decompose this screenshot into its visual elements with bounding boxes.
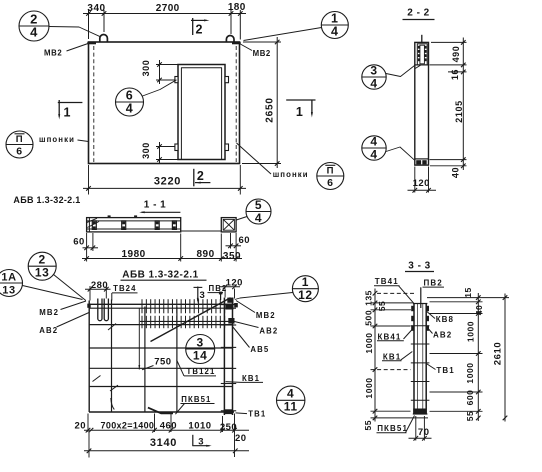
fixator box 1 xyxy=(92,221,96,230)
svg-text:5: 5 xyxy=(255,198,262,212)
mesh vertical bar left edge xyxy=(88,301,90,413)
svg-text:ТВ121: ТВ121 xyxy=(187,367,216,376)
embed MB2 foot detail xyxy=(415,158,429,160)
svg-text:КВ1: КВ1 xyxy=(242,374,260,383)
svg-text:13: 13 xyxy=(35,266,50,280)
svg-text:55: 55 xyxy=(465,411,475,422)
leader shponki right xyxy=(237,143,272,174)
fixator box 3 xyxy=(155,221,159,230)
callout circle II/6 left xyxy=(6,131,33,158)
bar PV2 end in plan xyxy=(220,293,222,300)
svg-text:16: 16 xyxy=(450,69,460,80)
svg-text:КВ41: КВ41 xyxy=(378,332,402,341)
svg-text:4: 4 xyxy=(126,101,134,115)
svg-text:КВ8: КВ8 xyxy=(436,315,454,324)
leader circle 3/4 xyxy=(386,65,415,77)
door opening inner xyxy=(181,68,221,160)
svg-text:1А: 1А xyxy=(1,271,16,283)
main dimension line 1980-890-350 xyxy=(82,258,242,260)
mesh vertical bar 3 xyxy=(144,307,146,413)
mesh horizontal bar 5 xyxy=(89,386,233,388)
svg-text:3 - 3: 3 - 3 xyxy=(408,261,431,272)
svg-text:4: 4 xyxy=(370,147,377,161)
leader circle 2/13 xyxy=(54,275,86,301)
mesh bottom chord xyxy=(89,411,234,413)
door fixing tab upper-left xyxy=(175,77,178,83)
svg-text:1000: 1000 xyxy=(364,377,374,398)
member top edge xyxy=(413,303,428,305)
door gap line xyxy=(181,230,222,232)
small hook curve bottom-left xyxy=(111,398,115,410)
svg-text:ПКВ51: ПКВ51 xyxy=(181,395,211,404)
section mark 2 bottom xyxy=(193,169,195,187)
svg-text:Π: Π xyxy=(327,166,334,177)
plan total dimension 3140 xyxy=(84,450,249,452)
second mesh band ticks xyxy=(141,316,143,328)
bottom hook PKV5 xyxy=(148,408,173,414)
svg-text:6: 6 xyxy=(327,177,333,189)
right dimension line 3-3 xyxy=(477,293,479,421)
left end cap of bar xyxy=(88,218,90,232)
svg-text:Π: Π xyxy=(16,134,23,145)
svg-text:300: 300 xyxy=(141,142,151,159)
section 2-2 panel body xyxy=(415,42,429,165)
top chord end dots xyxy=(87,304,90,308)
svg-text:АВ5: АВ5 xyxy=(250,345,269,354)
callout circle 5/4 xyxy=(246,199,271,224)
right jamb piece xyxy=(221,218,236,232)
svg-text:шпонки: шпонки xyxy=(273,170,309,179)
svg-text:13: 13 xyxy=(2,284,15,296)
bar splice mark 2 xyxy=(110,385,118,391)
shear key bump 1 on bar top xyxy=(108,215,111,217)
leader circle 5/4 xyxy=(236,217,247,221)
section mark 2 top xyxy=(192,18,194,35)
svg-text:1 - 1: 1 - 1 xyxy=(144,200,167,211)
embed plate MB2 top-left corner xyxy=(87,42,96,44)
section mark 3 bottom xyxy=(192,435,194,446)
callout circle II/6 right xyxy=(317,163,344,190)
section 3-3 member left edge xyxy=(413,304,415,415)
column foot black mark xyxy=(224,409,233,414)
hook wire above section xyxy=(421,35,423,43)
svg-text:3: 3 xyxy=(370,63,377,77)
lifting hook left xyxy=(100,35,108,43)
callout circle 1/12 xyxy=(292,276,318,302)
right extension lines 3-3 xyxy=(427,297,509,299)
extension lines plan bottom xyxy=(87,414,89,433)
svg-text:2610: 2610 xyxy=(493,342,504,366)
member foot black mark xyxy=(413,409,426,415)
member crossbars section 3-3 xyxy=(411,325,430,327)
svg-text:МВ2: МВ2 xyxy=(44,49,62,58)
svg-text:4: 4 xyxy=(255,211,262,225)
svg-text:12: 12 xyxy=(298,288,313,302)
top mesh band ticks xyxy=(141,299,143,313)
callout circle 3/14 xyxy=(186,335,215,364)
svg-text:1000: 1000 xyxy=(465,362,475,383)
svg-text:460: 460 xyxy=(160,420,177,431)
door fixing tab lower-right xyxy=(225,144,229,151)
svg-text:60: 60 xyxy=(239,235,251,246)
hook anchor head detail xyxy=(417,44,427,65)
mesh second chord xyxy=(140,320,233,322)
svg-text:3220: 3220 xyxy=(154,176,181,188)
bar splice mark 3 xyxy=(93,376,101,382)
left extension lines 3-3 xyxy=(371,302,413,304)
svg-text:14: 14 xyxy=(193,348,208,362)
dimension 2650 line xyxy=(276,37,278,168)
svg-text:ТВ24: ТВ24 xyxy=(113,284,136,293)
svg-text:2105: 2105 xyxy=(454,100,464,122)
embed AV2 black square xyxy=(228,318,234,324)
leader circle 4/4 xyxy=(386,147,415,160)
head detail bottom line xyxy=(415,64,429,66)
svg-text:4: 4 xyxy=(370,134,377,148)
door opening outer xyxy=(178,65,225,160)
svg-text:ПКВ51: ПКВ51 xyxy=(377,424,408,433)
leader shponki left xyxy=(78,140,89,142)
svg-text:АВ2: АВ2 xyxy=(259,327,278,336)
section 3-3 member right edge xyxy=(425,304,427,415)
svg-text:1000: 1000 xyxy=(364,332,374,353)
edge column bar left xyxy=(223,298,225,415)
mesh vertical bar 4 xyxy=(176,307,178,413)
section mark 1 left xyxy=(58,102,83,104)
svg-text:4: 4 xyxy=(30,24,38,39)
leader circle 1A/13 xyxy=(23,286,83,300)
svg-text:ПВ2: ПВ2 xyxy=(424,279,443,288)
plan bottom dimension row 1 xyxy=(84,429,249,431)
left dimension line 3-3 xyxy=(374,289,376,422)
member inner lines xyxy=(417,304,419,414)
svg-text:1: 1 xyxy=(302,275,309,289)
callout circle 3/4 xyxy=(362,65,386,89)
svg-text:11: 11 xyxy=(284,400,298,414)
svg-text:АБВ 1.3-32-2.1: АБВ 1.3-32-2.1 xyxy=(122,270,198,281)
svg-text:1010: 1010 xyxy=(188,420,211,431)
svg-text:2 - 2: 2 - 2 xyxy=(407,8,430,19)
svg-text:1: 1 xyxy=(331,11,339,25)
dimension 340-2700-180 line xyxy=(83,13,246,15)
section 1-1 bar outline xyxy=(87,218,181,232)
svg-text:АБВ 1.3-32-2.1: АБВ 1.3-32-2.1 xyxy=(13,195,80,205)
bar splice mark 1 xyxy=(108,324,116,331)
column crossbars xyxy=(221,304,236,306)
door fixing tab upper-right xyxy=(225,77,229,83)
svg-text:4: 4 xyxy=(370,76,377,90)
svg-text:ПВ2: ПВ2 xyxy=(209,284,228,293)
svg-text:340: 340 xyxy=(87,3,105,14)
corner embed black square xyxy=(227,298,233,303)
svg-text:3: 3 xyxy=(197,335,204,349)
svg-text:АВ2: АВ2 xyxy=(39,326,58,335)
svg-text:750: 750 xyxy=(154,357,171,368)
panel inner dashed line left xyxy=(93,46,95,162)
svg-text:20: 20 xyxy=(235,433,247,444)
svg-text:2: 2 xyxy=(197,169,205,183)
extension lines for top dimension xyxy=(88,10,90,39)
svg-text:3140: 3140 xyxy=(150,437,177,449)
mesh top chord xyxy=(89,303,236,305)
svg-text:ТВ41: ТВ41 xyxy=(375,277,399,286)
panel inner dashed line right xyxy=(235,46,237,162)
fixator box 2 xyxy=(122,221,126,230)
svg-text:55: 55 xyxy=(377,301,387,312)
callout circle 1A/13 xyxy=(0,270,23,297)
svg-text:40: 40 xyxy=(474,305,484,316)
bar PV2 in section xyxy=(420,287,422,308)
svg-text:МВ2: МВ2 xyxy=(256,311,276,320)
leader from circle 6/4 to door tab xyxy=(143,80,177,96)
callout circle 1/4 xyxy=(321,12,348,39)
door fixing tab lower-left xyxy=(175,144,178,151)
fixator box 4 right end xyxy=(172,221,176,230)
embed plate MB2 top-right corner xyxy=(232,42,241,44)
lifting hook right xyxy=(226,36,234,43)
svg-text:70: 70 xyxy=(418,427,430,438)
svg-text:4: 4 xyxy=(287,387,294,401)
svg-text:135: 135 xyxy=(364,290,374,306)
dimension 70 bottom 3-3 xyxy=(415,416,417,441)
svg-text:2650: 2650 xyxy=(264,97,275,122)
leader circle 1/12 xyxy=(235,293,293,300)
leader MB2 right xyxy=(240,44,252,51)
svg-text:700х2=1400: 700х2=1400 xyxy=(100,420,154,430)
svg-text:2: 2 xyxy=(39,253,46,267)
svg-text:ТВ1: ТВ1 xyxy=(436,366,454,375)
svg-text:6: 6 xyxy=(16,145,22,157)
leader to lifting hook xyxy=(49,27,101,37)
svg-text:60: 60 xyxy=(73,237,85,248)
callout circle 4/11 xyxy=(277,386,305,414)
svg-text:2: 2 xyxy=(196,23,204,37)
leader MB2 left xyxy=(67,44,89,52)
svg-text:3: 3 xyxy=(198,436,204,447)
mesh horizontal bar 3 xyxy=(89,347,233,349)
shear key bump 2 on bar top xyxy=(134,215,137,217)
hook loop MB2 top-left xyxy=(98,299,102,321)
title 1-1 underline arrow xyxy=(142,211,181,213)
svg-text:40: 40 xyxy=(451,167,461,178)
section mark 3 top xyxy=(197,287,199,302)
svg-text:1: 1 xyxy=(296,105,304,119)
svg-text:120: 120 xyxy=(413,178,430,189)
dimension 750 line xyxy=(138,308,140,370)
svg-text:350: 350 xyxy=(223,251,241,262)
svg-text:490: 490 xyxy=(451,46,461,63)
diagonal bar xyxy=(151,298,231,342)
svg-text:КВ1: КВ1 xyxy=(383,352,401,361)
svg-text:250: 250 xyxy=(220,422,237,433)
mesh vertical bar 2 xyxy=(111,300,113,413)
svg-text:ТВ1: ТВ1 xyxy=(248,410,266,419)
svg-text:1000: 1000 xyxy=(466,321,476,342)
svg-text:890: 890 xyxy=(197,249,215,260)
svg-text:600: 600 xyxy=(465,390,475,406)
svg-text:500: 500 xyxy=(364,310,374,326)
svg-text:15: 15 xyxy=(463,287,473,298)
dimension 300 top at door xyxy=(159,60,161,84)
svg-text:2700: 2700 xyxy=(156,3,180,14)
svg-text:3: 3 xyxy=(200,290,206,301)
embed plates on member xyxy=(411,306,414,311)
dimension 120 bottom of 2-2 xyxy=(414,167,416,193)
svg-text:1: 1 xyxy=(64,106,72,120)
svg-text:АВ2: АВ2 xyxy=(433,331,452,340)
callout circle 2/13 xyxy=(28,252,56,280)
vertical dimension line section 2-2 xyxy=(462,38,464,171)
mesh horizontal bar 4 xyxy=(89,367,233,369)
svg-text:55: 55 xyxy=(363,420,373,431)
svg-text:шпонки: шпонки xyxy=(39,135,75,144)
svg-text:МВ2: МВ2 xyxy=(253,49,271,58)
svg-text:180: 180 xyxy=(228,2,246,13)
hook loop AV2 top-left xyxy=(104,299,108,321)
member bottom edge xyxy=(413,413,428,415)
callout circle 6/4 xyxy=(116,88,144,116)
edge column bar right xyxy=(232,298,234,415)
svg-text:4: 4 xyxy=(331,24,339,38)
overall dimension 2610 xyxy=(504,294,506,422)
dimension 3220 line xyxy=(83,187,246,189)
section mark 1 right xyxy=(286,99,315,101)
svg-text:МВ2: МВ2 xyxy=(39,308,59,317)
panel facade outline xyxy=(89,42,240,164)
dimension 300 bottom at door xyxy=(159,142,161,164)
leader from circle 1/4 xyxy=(244,28,322,41)
svg-text:6: 6 xyxy=(126,88,134,102)
svg-text:1980: 1980 xyxy=(121,249,145,260)
extension lines right of section 2-2 xyxy=(431,41,467,43)
dashed level line top xyxy=(377,292,414,294)
callout circle 2/4 xyxy=(19,11,49,41)
svg-text:20: 20 xyxy=(75,420,87,431)
svg-text:300: 300 xyxy=(141,60,151,77)
callout circle 4/4 xyxy=(362,136,386,160)
